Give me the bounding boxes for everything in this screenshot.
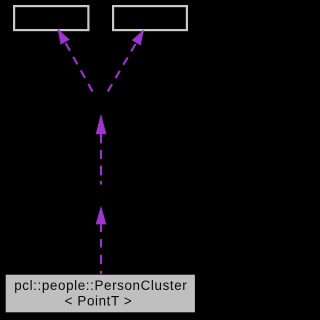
edge: dashed usage arrow, left diagonal (to box 1): [58, 29, 93, 92]
node: base class box 2 (top-right, label hidden): [113, 6, 187, 30]
arrowhead: middle lower vertical: [96, 206, 107, 225]
svg-text:pcl::people::PersonCluster: pcl::people::PersonCluster: [14, 278, 187, 293]
edge: dashed usage arrow, middle upper vertical: [100, 134, 102, 184]
arrowhead: left diagonal: [58, 29, 70, 45]
node: pcl::people::PersonCluster< PointT > (bottom, gray): [6, 275, 195, 313]
svg-text:< PointT >: < PointT >: [65, 293, 133, 308]
arrowhead: middle upper vertical: [96, 114, 107, 134]
node: base class box 1 (top-left, label hidden): [14, 6, 88, 30]
edge: dashed usage arrow, right diagonal (to box 2): [108, 30, 145, 93]
arrowhead: right diagonal: [132, 30, 144, 46]
edge: dashed usage arrow, middle lower vertical (from PersonCluster): [100, 224, 102, 274]
